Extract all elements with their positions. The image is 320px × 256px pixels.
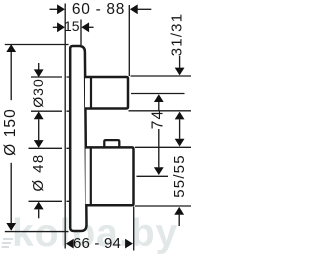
dimension D30 (30, 63, 46, 140)
svg-text:74: 74 (150, 110, 167, 129)
dimension 31/31 (169, 13, 186, 120)
svg-text:55/55: 55/55 (171, 154, 188, 198)
dimension 66-94 bottom (66, 235, 133, 252)
wire extension line x129 (128, 5, 130, 76)
svg-text:66 - 94: 66 - 94 (73, 235, 121, 252)
dimension 55/55 (171, 119, 188, 226)
svg-text:31/31: 31/31 (169, 13, 186, 57)
wire ext lines knob1 (D30) (31, 76, 62, 78)
wire wall extension line (64, 4, 66, 249)
wire ext lines left of plate (D150) (5, 44, 69, 46)
watermark (12, 212, 178, 255)
svg-text:15: 15 (64, 18, 80, 34)
svg-text:Ø 150: Ø 150 (2, 108, 19, 156)
svg-text:Ø30: Ø30 (30, 78, 46, 107)
dimension 60-88 top (50, 1, 152, 18)
wire right side ext lines (131, 75, 192, 77)
svg-text:60 - 88: 60 - 88 (72, 1, 125, 18)
wire extension line x81 (80, 20, 82, 46)
dimension D48 (30, 140, 47, 218)
knob1 collar line (90, 77, 92, 110)
watermark corner mark (2, 239, 14, 247)
knob1 (temperature handle, top) (85, 77, 128, 109)
plate (escutcheon side view) (70, 46, 86, 231)
dimension 15 (53, 18, 94, 34)
wire extension line x133.7 (133, 207, 135, 251)
knob2 tab (104, 140, 119, 147)
wire ext lines knob2 (D48) (29, 147, 63, 149)
knob2 (shut-off handle, bottom) (86, 147, 134, 205)
knob2 collar line (90, 147, 92, 206)
dimension 74 right (150, 94, 167, 175)
svg-text:Ø 48: Ø 48 (30, 153, 47, 191)
dimension D150 left (2, 44, 19, 231)
